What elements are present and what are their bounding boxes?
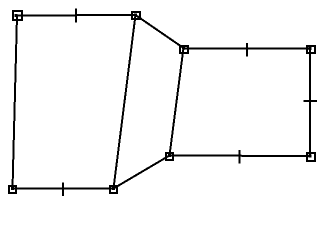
wire B-E (top edge of middle quadrilateral) [136, 15, 184, 48]
node E (middle-top point marker) [180, 46, 188, 53]
node H (bottom-right point marker) [307, 153, 315, 161]
wire E-G (top edge of right quadrilateral) [184, 48, 311, 50]
node F vertex dot [168, 154, 171, 157]
node A (top-left point marker) [13, 11, 22, 20]
node B vertex dot [134, 14, 137, 17]
node D vertex dot [11, 187, 14, 190]
wire F-C (bottom edge of middle quadrilateral) [114, 156, 170, 189]
tick mark midpoint of C-D [62, 183, 64, 197]
wire D-A (left edge of left quadrilateral) [13, 16, 18, 189]
wire E-F (shared slanted edge) [170, 48, 184, 156]
node D (bottom-left point marker) [9, 186, 16, 193]
wire H-F (bottom edge of right quadrilateral) [170, 155, 311, 158]
tick mark midpoint of A-B [75, 9, 77, 23]
wire B-C (shared slanted edge) [114, 15, 136, 189]
node G vertex dot [309, 47, 312, 50]
node G (top-right point marker) [307, 46, 315, 53]
node F (middle-bottom point marker) [166, 153, 173, 160]
tick mark midpoint of E-G [246, 43, 248, 57]
node E vertex dot [182, 47, 185, 50]
node B (top-middle point marker) [132, 12, 140, 19]
node H vertex dot [309, 155, 312, 158]
tick mark midpoint of G-H [304, 100, 318, 102]
wire A-B (top edge of left quadrilateral) [17, 14, 136, 17]
wire G-H (right edge of right quadrilateral) [309, 49, 311, 157]
node C (bottom-middle point marker) [110, 186, 117, 193]
wire C-D (bottom edge of left quadrilateral) [13, 188, 114, 190]
tick mark midpoint of F-H [239, 150, 241, 164]
node A vertex dot [15, 14, 18, 17]
node C vertex dot [112, 187, 115, 190]
